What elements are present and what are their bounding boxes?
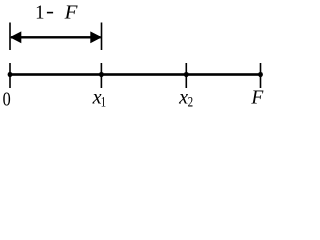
svg-text:F: F: [250, 88, 264, 109]
arrowhead left: [10, 31, 21, 43]
tick 0: [9, 63, 11, 88]
dimension arrow tick right: [101, 23, 103, 51]
number line: [9, 73, 261, 76]
label x1: [92, 87, 107, 110]
svg-text:1: 1: [101, 94, 106, 110]
dot 0: [8, 72, 13, 77]
label 1-F: [35, 1, 78, 24]
dot x1: [99, 72, 104, 77]
svg-text:0: 0: [3, 89, 11, 111]
tick x1: [101, 63, 103, 88]
dot x2: [184, 72, 189, 77]
svg-text:1: 1: [35, 1, 44, 24]
tick x2: [186, 63, 188, 88]
double-headed arrow shaft: [11, 36, 101, 38]
label x2: [178, 87, 193, 110]
tick F: [260, 63, 262, 88]
svg-text:2: 2: [188, 94, 193, 110]
dot F: [258, 72, 263, 77]
arrowhead right: [90, 31, 102, 43]
svg-text:F: F: [64, 2, 79, 23]
dimension arrow tick left: [9, 23, 11, 51]
